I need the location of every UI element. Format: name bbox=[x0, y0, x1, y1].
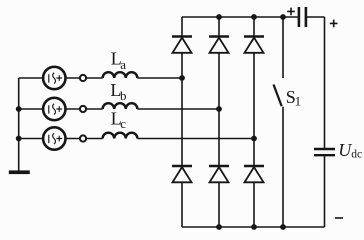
svg-text:a: a bbox=[120, 57, 126, 72]
svg-text:1: 1 bbox=[295, 94, 302, 109]
svg-text:c: c bbox=[120, 116, 126, 131]
svg-text:U: U bbox=[338, 140, 352, 160]
svg-text:b: b bbox=[120, 88, 127, 103]
svg-text:dc: dc bbox=[351, 148, 362, 160]
